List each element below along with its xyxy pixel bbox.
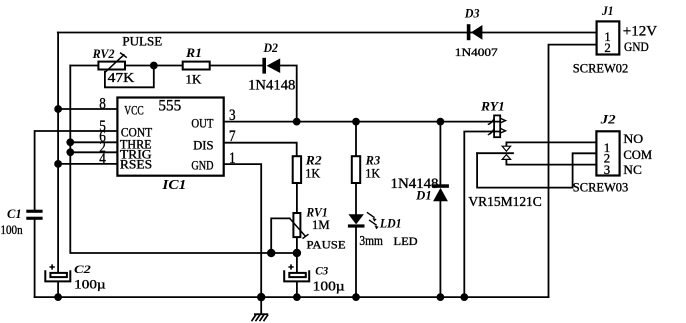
- junction left rail / pin4: [54, 160, 62, 168]
- svg-text:R2: R2: [305, 154, 322, 168]
- junction RV2 wiper / R1: [150, 62, 158, 70]
- wire left rail: [57, 33, 59, 298]
- svg-text:1N4148: 1N4148: [248, 78, 295, 94]
- svg-text:100µ: 100µ: [74, 277, 106, 292]
- svg-text:R3: R3: [365, 154, 381, 168]
- junction left rail / pin8: [54, 105, 62, 113]
- wire pin5 CONT to C1: [35, 131, 118, 297]
- svg-text:PAUSE: PAUSE: [307, 238, 346, 252]
- wire pin6: [70, 141, 117, 143]
- wire RV1 bottom: [296, 237, 298, 253]
- svg-text:RSES: RSES: [120, 157, 152, 171]
- wire COM loop to J2 pin2: [477, 153, 596, 187]
- junction C2 / ground rail: [54, 293, 62, 301]
- connector J2: [596, 131, 619, 175]
- junction D1 / OUT node: [437, 118, 445, 126]
- wire OUT pin3: [224, 121, 500, 123]
- junction IC GND / ground rail: [257, 293, 265, 301]
- relay contact NO triangle: [502, 146, 510, 151]
- wire pin4: [58, 163, 117, 165]
- LED arrows: [367, 212, 379, 229]
- diode D3: [467, 24, 483, 40]
- capacitor C1: [26, 210, 42, 220]
- wire RV2 wiper loop: [105, 66, 154, 88]
- relay contact NC triangle: [502, 155, 510, 160]
- wire relay coil lower: [464, 132, 500, 298]
- wire relay pole: [477, 152, 513, 154]
- wire J1 pin2 GND down right side: [549, 45, 597, 298]
- svg-text:C3: C3: [315, 263, 328, 277]
- potentiometer RV2: [98, 53, 126, 73]
- junction D1 / ground rail: [437, 293, 445, 301]
- junction RV1 wiper / pause net: [267, 249, 275, 257]
- svg-text:100n: 100n: [1, 223, 23, 237]
- junction RV1 bottom / C3: [293, 249, 301, 257]
- resistor R2: [293, 156, 301, 183]
- capacitor C2: [45, 264, 70, 281]
- svg-text:GND: GND: [624, 40, 649, 54]
- wire C3 leads: [296, 253, 298, 297]
- svg-text:C1: C1: [7, 207, 22, 221]
- wire bottom rail: [35, 296, 549, 298]
- svg-text:100µ: 100µ: [313, 279, 345, 294]
- wire RV2 left: [70, 65, 98, 67]
- svg-text:COM: COM: [623, 148, 652, 162]
- svg-text:J2: J2: [599, 113, 615, 127]
- potentiometer RV1: [290, 213, 309, 239]
- wire D2 to OUT node: [280, 66, 297, 122]
- svg-text:D3: D3: [464, 7, 480, 21]
- svg-text:RY1: RY1: [480, 99, 505, 113]
- svg-text:PULSE: PULSE: [122, 35, 162, 49]
- junction RV2 rail / pin6: [66, 138, 74, 146]
- svg-text:VCC: VCC: [124, 104, 143, 118]
- resistor R3: [352, 156, 360, 183]
- connector J1: [597, 21, 620, 54]
- svg-text:SCREW03: SCREW03: [573, 181, 629, 195]
- svg-text:OUT: OUT: [191, 116, 213, 130]
- wire relay NC contact to J2 pin3: [506, 160, 596, 165]
- svg-text:NO: NO: [623, 132, 643, 146]
- capacitor C3: [284, 264, 309, 281]
- svg-text:1M: 1M: [312, 218, 330, 232]
- svg-text:J1: J1: [601, 4, 613, 18]
- svg-text:555: 555: [158, 97, 181, 114]
- junction LED / ground rail: [352, 293, 360, 301]
- wire RV2 rail down to RV1 row: [70, 66, 297, 254]
- relay coil RY1: [488, 115, 506, 137]
- svg-text:2: 2: [604, 41, 610, 55]
- svg-text:DIS: DIS: [193, 139, 214, 153]
- junction C3 / ground rail: [293, 293, 301, 301]
- diode D1: [432, 184, 449, 201]
- resistor R1: [183, 62, 210, 70]
- op-amp IC1 555 box: [117, 98, 223, 176]
- junction relay coil / ground rail: [460, 293, 468, 301]
- diode D2: [262, 58, 280, 74]
- svg-text:3mm: 3mm: [359, 233, 383, 248]
- svg-text:7: 7: [229, 128, 236, 145]
- svg-text:+12V: +12V: [623, 23, 658, 39]
- wire R1 to D2: [210, 65, 263, 67]
- junction R3 / OUT node: [352, 118, 360, 126]
- svg-text:VR15M121C: VR15M121C: [468, 194, 542, 209]
- wire pin8: [58, 108, 117, 110]
- svg-text:1: 1: [229, 150, 236, 167]
- wire pin7 DIS to R2: [224, 143, 297, 157]
- svg-text:3: 3: [604, 163, 610, 177]
- wire R3 column: [355, 122, 357, 298]
- wire RV2 to R1: [125, 65, 183, 67]
- wire top rail +12V: [58, 32, 597, 34]
- svg-text:1N4007: 1N4007: [455, 46, 498, 59]
- junction D2 / OUT node: [293, 118, 301, 126]
- svg-text:D1: D1: [415, 189, 432, 203]
- svg-text:SCREW02: SCREW02: [573, 61, 629, 75]
- svg-text:1K: 1K: [305, 167, 321, 181]
- svg-text:4: 4: [99, 150, 106, 167]
- svg-text:3: 3: [229, 107, 236, 124]
- svg-text:8: 8: [99, 95, 106, 112]
- wire relay NO contact to J2 pin1: [506, 142, 596, 145]
- wire pin1 GND: [224, 164, 262, 297]
- svg-text:GND: GND: [191, 158, 213, 172]
- svg-text:1K: 1K: [186, 73, 203, 87]
- wire R2 to RV1: [296, 183, 298, 213]
- svg-text:C2: C2: [74, 262, 91, 276]
- svg-text:D2: D2: [263, 41, 278, 55]
- LED LD1: [348, 214, 365, 227]
- ground: [252, 297, 269, 321]
- junction RV2 rail / pin2: [66, 148, 74, 156]
- svg-text:LD1: LD1: [379, 216, 402, 230]
- wire pin2: [70, 151, 117, 153]
- svg-text:NC: NC: [623, 163, 641, 177]
- svg-text:47K: 47K: [108, 70, 135, 85]
- svg-text:1K: 1K: [365, 167, 381, 181]
- svg-text:LED: LED: [394, 236, 418, 248]
- svg-text:IC1: IC1: [161, 177, 186, 192]
- svg-text:RV2: RV2: [92, 47, 115, 61]
- svg-text:R1: R1: [185, 46, 202, 60]
- wire D1 column: [439, 122, 441, 298]
- wire RV1 wiper loop: [271, 218, 290, 253]
